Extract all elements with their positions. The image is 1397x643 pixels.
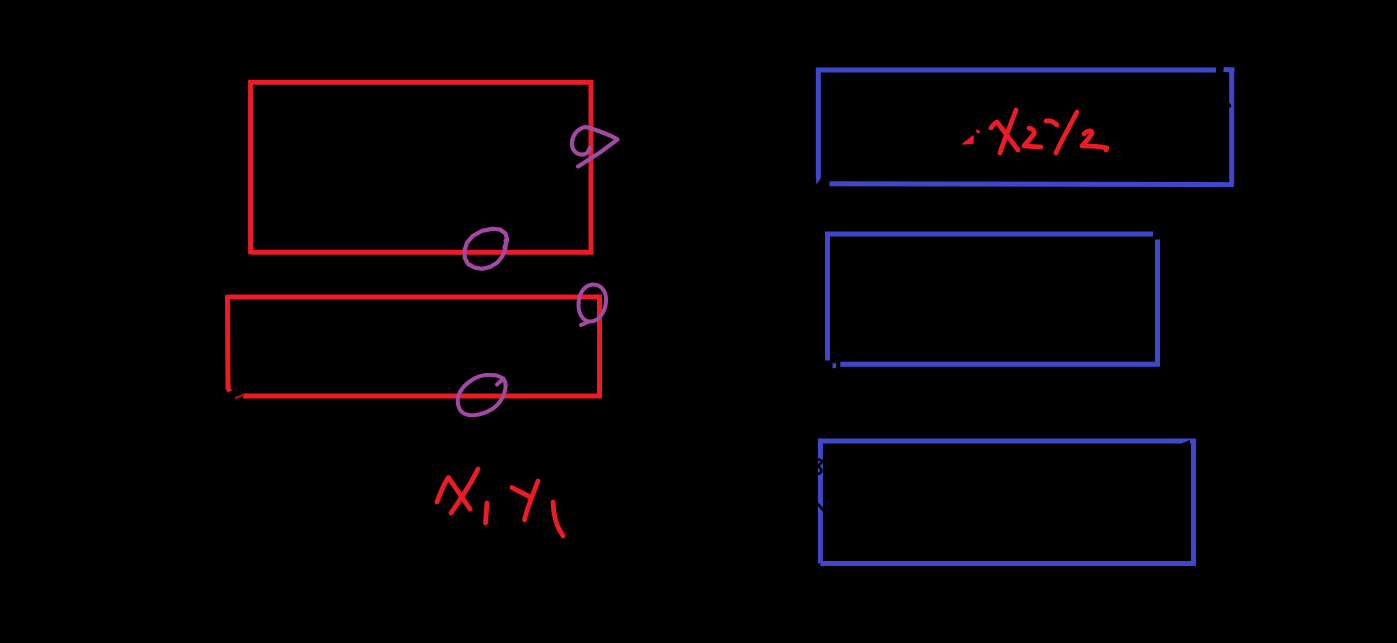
purple loop marker on R1 bottom edge: [465, 229, 508, 269]
letter X of x1: [437, 478, 470, 510]
rectangle R1 (red, top-left): [251, 82, 591, 254]
purple loop marker on R2 top-right corner: [579, 284, 607, 325]
black pen-skip scribble over B3 left edge: [817, 460, 824, 511]
purple loop marker on R2 bottom edge: [458, 375, 506, 415]
subscript 2 of y2: [1082, 131, 1107, 150]
pen-skip dash at R2 bottom-left corner: [235, 395, 244, 399]
subscript 2 of x2: [1024, 128, 1041, 147]
letter Y of y1: [512, 488, 530, 498]
letter Y of y2: [1056, 112, 1077, 153]
black nick on B1 right edge: [1229, 102, 1231, 108]
rectangle B2 (blue, middle-right): [828, 234, 1160, 366]
rectangle R2 (red, bottom-left): [228, 295, 600, 396]
small arrowhead before x2: [963, 136, 973, 144]
letter X of x2: [991, 122, 1018, 150]
handwritten label (x1,y1) below R2: [437, 469, 563, 536]
subscript 1 of y1: [553, 502, 563, 536]
dash between x2 and y2: [1046, 121, 1057, 125]
taper at B1 bottom-left edge end: [816, 176, 820, 184]
rectangle B1 (blue, top-right): [818, 70, 1234, 187]
black pen-skip wedge inside B3 top-right corner: [1178, 440, 1190, 446]
ink dot before x2: [978, 131, 979, 132]
handwritten label (x2,y2) inside B1: [963, 110, 1107, 153]
rectangle B3 (blue, bottom-right): [820, 441, 1193, 564]
subscript 1 of x1: [486, 503, 488, 523]
purple loop marker on R1 right edge: [572, 127, 618, 167]
